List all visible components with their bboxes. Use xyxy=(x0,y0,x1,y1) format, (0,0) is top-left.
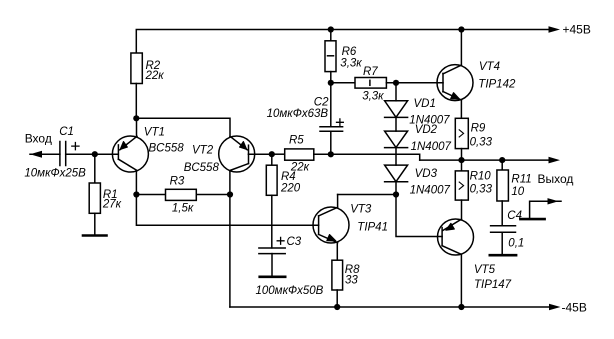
resistor R10 xyxy=(455,171,468,200)
arrow input terminal xyxy=(30,151,42,158)
node R2 / VT1 emitter / VT2 emitter junction xyxy=(133,115,139,121)
wire input line xyxy=(30,153,60,155)
svg-text:R6: R6 xyxy=(342,46,357,58)
node output / R11 junction xyxy=(499,157,505,163)
wire node to R7 xyxy=(331,82,355,84)
diode VD3 xyxy=(385,148,408,195)
wire C4 to ground xyxy=(501,232,503,254)
wire VT1 collector down xyxy=(135,172,137,195)
svg-text:C3: C3 xyxy=(287,236,302,248)
svg-text:BC558: BC558 xyxy=(149,143,185,155)
wire R6 bottom xyxy=(330,72,332,83)
svg-text:+45В: +45В xyxy=(563,23,591,37)
wire output rail xyxy=(420,159,550,161)
node R3 left / VT1 collector xyxy=(133,191,139,197)
svg-text:VT5: VT5 xyxy=(474,264,496,276)
transistor VT3 xyxy=(313,207,349,243)
svg-text:VD1: VD1 xyxy=(414,98,436,110)
transistor VT4 xyxy=(437,65,473,101)
wire R8 to rail xyxy=(336,290,338,307)
svg-text:TIP147: TIP147 xyxy=(474,279,512,291)
node R3 right / VT2 collector xyxy=(227,191,233,197)
ground under C4 xyxy=(490,254,516,257)
wire R3 right xyxy=(196,194,230,196)
arrow output return terminal xyxy=(548,198,559,204)
node VD3 / VT3 collector / VT5 base junction xyxy=(393,191,399,197)
wire node to VT3 collector xyxy=(338,194,396,196)
svg-text:R10: R10 xyxy=(470,170,492,182)
wire VT3 collector up xyxy=(337,195,339,208)
ground output terminal bar xyxy=(520,218,544,221)
svg-text:1N4007: 1N4007 xyxy=(411,141,452,153)
wire VT4 emitter to R9 xyxy=(460,100,462,118)
svg-text:VT1: VT1 xyxy=(144,126,165,138)
power mark R10 xyxy=(459,182,463,189)
wire VT3 emitter down xyxy=(336,243,338,260)
svg-text:R11: R11 xyxy=(511,174,531,186)
svg-text:33: 33 xyxy=(345,275,358,287)
svg-text:TIP142: TIP142 xyxy=(478,79,516,91)
ground under R1 xyxy=(83,234,107,237)
resistor R11 xyxy=(497,170,509,201)
wire node to R5 xyxy=(272,153,285,155)
wire emitter rail to VT2 xyxy=(136,118,230,136)
resistor R8 xyxy=(332,260,343,290)
svg-text:C4: C4 xyxy=(507,210,522,222)
node R7 / VD1 junction xyxy=(393,80,399,86)
node top rail / R6 junction xyxy=(328,26,334,32)
transistor VT5 xyxy=(438,219,474,255)
wire R10 top xyxy=(461,160,463,171)
wire output return terminal xyxy=(530,201,561,219)
node top rail / VT4 collector junction xyxy=(458,26,464,32)
svg-text:100мкФх50В: 100мкФх50В xyxy=(256,285,324,297)
power mark R6 xyxy=(328,55,334,57)
wire C1 to VT1 base xyxy=(66,153,119,155)
wire VT1 collector to VT3 base xyxy=(136,195,318,226)
wire bottom -45V rail xyxy=(230,306,550,308)
plus sign C2 xyxy=(337,119,344,126)
wire C3 to ground xyxy=(271,254,273,276)
node C1 / R1 junction xyxy=(92,151,98,157)
svg-text:22к: 22к xyxy=(290,162,310,174)
diode VD1 xyxy=(385,83,408,118)
wire R6 top lead xyxy=(330,30,332,41)
wire VT1 emitter up xyxy=(136,118,138,136)
svg-text:R9: R9 xyxy=(471,122,486,134)
svg-text:TIP41: TIP41 xyxy=(357,221,388,233)
wire node to R4 xyxy=(271,154,273,165)
wire R2 bottom to node xyxy=(135,84,137,119)
svg-text:Выход: Выход xyxy=(538,172,574,186)
svg-text:0,33: 0,33 xyxy=(470,183,493,195)
node VT2 base / R4 / R5 junction xyxy=(269,151,275,157)
svg-text:27к: 27к xyxy=(102,199,122,211)
node rail / R8 junction xyxy=(334,304,340,310)
transistor VT1 xyxy=(112,136,148,172)
capacitor C1 xyxy=(60,142,66,166)
svg-text:VT4: VT4 xyxy=(479,61,500,73)
wire R11 top xyxy=(501,160,503,170)
wire R3 left xyxy=(136,194,165,196)
wire VT5 collector to rail xyxy=(460,255,462,308)
svg-text:BC558: BC558 xyxy=(184,162,220,174)
wire R4 to C3 xyxy=(271,195,273,248)
svg-text:VT3: VT3 xyxy=(350,204,372,216)
diode VD2 xyxy=(385,117,408,147)
plus sign C1 xyxy=(72,143,79,150)
resistor R6 xyxy=(325,41,336,72)
wire R9 to output rail xyxy=(461,149,463,161)
node C2 / R5 wire junction xyxy=(328,151,334,157)
resistor R4 xyxy=(266,165,277,195)
svg-text:10мкФх25В: 10мкФх25В xyxy=(24,168,86,180)
wire C2 top lead xyxy=(330,83,332,127)
resistor R9 xyxy=(455,118,468,148)
svg-text:R7: R7 xyxy=(363,66,378,78)
resistor R1 xyxy=(89,183,100,213)
node rail / VT5 collector junction xyxy=(458,304,464,310)
wire VT2 base to node xyxy=(248,153,271,155)
wire top +45V rail xyxy=(136,30,550,54)
resistor R2 xyxy=(131,53,142,84)
svg-text:0,1: 0,1 xyxy=(508,238,524,250)
wire R10 to VT5 emitter xyxy=(461,200,463,219)
capacitor C3 xyxy=(259,248,285,254)
svg-text:220: 220 xyxy=(280,183,301,195)
resistor R5 xyxy=(285,149,314,160)
svg-text:1,5к: 1,5к xyxy=(172,203,194,215)
power mark R9 xyxy=(459,130,463,137)
svg-text:10мкФх63В: 10мкФх63В xyxy=(267,108,329,120)
capacitor C2 xyxy=(320,127,343,132)
svg-text:VT2: VT2 xyxy=(192,145,214,157)
arrow +45V terminal xyxy=(549,26,561,33)
svg-text:10: 10 xyxy=(511,186,524,198)
wire node to R1 xyxy=(94,154,96,183)
svg-text:VD2: VD2 xyxy=(415,124,438,136)
svg-text:C2: C2 xyxy=(314,96,329,108)
svg-text:3,3к: 3,3к xyxy=(362,90,384,102)
transistor VT2 xyxy=(219,136,255,172)
resistor R7 xyxy=(355,78,386,89)
plus sign C3 xyxy=(277,237,284,244)
svg-text:1N4007: 1N4007 xyxy=(410,185,451,197)
svg-text:3,3к: 3,3к xyxy=(340,57,362,69)
svg-text:0,33: 0,33 xyxy=(470,136,493,148)
svg-text:C1: C1 xyxy=(59,126,74,138)
svg-text:R5: R5 xyxy=(289,134,304,146)
node output / R9 junction xyxy=(458,157,464,163)
svg-text:22к: 22к xyxy=(145,70,165,82)
wire R11 to C4 xyxy=(501,201,503,226)
wire VT2 collector down to negative rail xyxy=(229,171,231,307)
power mark R7 xyxy=(369,80,371,85)
resistor R3 xyxy=(166,189,197,200)
wire node down to VT5 base xyxy=(396,195,442,237)
svg-text:VD3: VD3 xyxy=(415,168,438,180)
capacitor C4 xyxy=(491,226,516,233)
arrow -45V terminal xyxy=(549,304,561,311)
node R6 / R7 / C2 junction xyxy=(328,80,334,86)
wire R5 to output jog xyxy=(314,154,420,160)
wire C2 bottom xyxy=(330,131,332,154)
ground under C3 xyxy=(260,275,286,278)
wire R7 to VT4 base xyxy=(386,82,443,84)
arrow output terminal xyxy=(549,157,561,164)
svg-text:Вход: Вход xyxy=(25,131,52,145)
svg-text:R3: R3 xyxy=(170,175,185,187)
wire R1 to ground xyxy=(94,213,96,234)
wire VT4 collector to rail xyxy=(460,30,462,66)
svg-text:-45В: -45В xyxy=(562,301,587,315)
